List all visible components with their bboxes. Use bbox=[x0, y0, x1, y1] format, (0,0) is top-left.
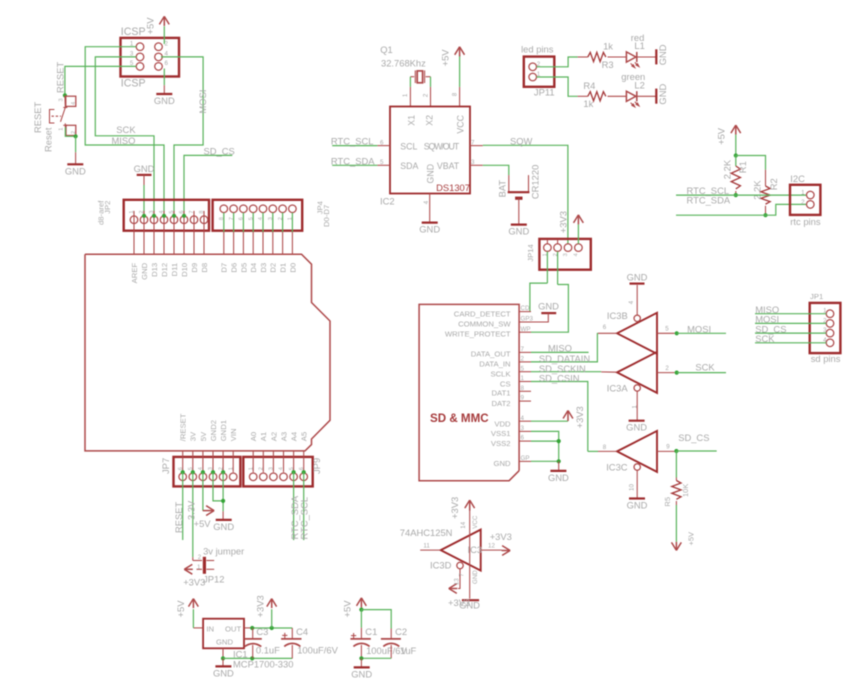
svg-text:RTC_SCL: RTC_SCL bbox=[331, 136, 374, 147]
svg-text:1k: 1k bbox=[583, 98, 593, 109]
svg-text:MOSI: MOSI bbox=[687, 324, 711, 335]
svg-text:GND: GND bbox=[134, 163, 155, 174]
svg-text:VDD: VDD bbox=[494, 419, 511, 428]
svg-text:ICSP: ICSP bbox=[121, 26, 146, 38]
svg-text:R2: R2 bbox=[768, 178, 779, 190]
svg-text:MISO: MISO bbox=[112, 135, 136, 146]
svg-text:MOSI: MOSI bbox=[197, 90, 208, 114]
svg-text:D2: D2 bbox=[269, 263, 278, 273]
svg-text:A5: A5 bbox=[300, 432, 309, 441]
svg-text:D0: D0 bbox=[288, 263, 297, 273]
svg-text:DAT1: DAT1 bbox=[492, 389, 511, 398]
svg-text:1: 1 bbox=[129, 210, 135, 213]
svg-text:SCK: SCK bbox=[116, 124, 136, 135]
svg-text:SD_CS: SD_CS bbox=[678, 432, 709, 443]
svg-text:IC3B: IC3B bbox=[607, 310, 628, 321]
svg-text:ICSP: ICSP bbox=[121, 77, 146, 89]
svg-text:COMMON_SW: COMMON_SW bbox=[458, 320, 511, 329]
svg-text:GND: GND bbox=[472, 570, 479, 584]
svg-text:3: 3 bbox=[58, 98, 64, 101]
svg-text:RESET: RESET bbox=[173, 501, 184, 533]
svg-text:IC3A: IC3A bbox=[607, 382, 629, 393]
svg-text:1: 1 bbox=[58, 128, 64, 131]
svg-text:+3V3: +3V3 bbox=[255, 595, 266, 617]
svg-text:GND: GND bbox=[627, 272, 648, 283]
svg-text:2: 2 bbox=[71, 131, 77, 134]
svg-text:.1uF: .1uF bbox=[398, 645, 417, 656]
svg-text:GND: GND bbox=[538, 301, 559, 312]
svg-text:2.2K: 2.2K bbox=[722, 159, 733, 179]
svg-text:WP: WP bbox=[521, 326, 531, 333]
svg-text:GND: GND bbox=[65, 165, 86, 176]
svg-text:CARD_DETECT: CARD_DETECT bbox=[454, 309, 511, 318]
svg-text:RESET: RESET bbox=[32, 101, 43, 133]
svg-text:IN: IN bbox=[206, 624, 214, 633]
svg-text:5: 5 bbox=[665, 326, 669, 333]
svg-text:BAT: BAT bbox=[496, 180, 507, 198]
svg-text:+3V3: +3V3 bbox=[448, 597, 470, 608]
svg-text:4: 4 bbox=[521, 415, 525, 422]
svg-text:9: 9 bbox=[666, 444, 670, 451]
svg-text:SCK: SCK bbox=[695, 362, 715, 373]
svg-text:5: 5 bbox=[188, 467, 194, 470]
svg-text:14: 14 bbox=[460, 521, 467, 528]
svg-text:D8: D8 bbox=[200, 263, 209, 273]
svg-text:5: 5 bbox=[169, 210, 175, 213]
svg-text:+5V: +5V bbox=[439, 49, 450, 67]
svg-text:GND: GND bbox=[548, 472, 569, 483]
svg-text:8: 8 bbox=[452, 92, 459, 96]
svg-text:DS1307: DS1307 bbox=[436, 182, 470, 193]
svg-text:1: 1 bbox=[631, 405, 638, 409]
svg-text:2.2K: 2.2K bbox=[752, 180, 763, 200]
svg-text:6: 6 bbox=[179, 210, 185, 213]
svg-text:JP14: JP14 bbox=[526, 243, 535, 261]
svg-text:DAT2: DAT2 bbox=[492, 399, 511, 408]
svg-text:SCLK: SCLK bbox=[491, 369, 512, 378]
svg-text:red: red bbox=[631, 32, 645, 43]
svg-text:1: 1 bbox=[288, 217, 294, 220]
svg-text:D9: D9 bbox=[190, 263, 199, 273]
svg-text:IC2: IC2 bbox=[380, 196, 395, 207]
svg-text:4: 4 bbox=[574, 253, 580, 256]
svg-text:GND: GND bbox=[626, 422, 647, 433]
svg-text:JP12: JP12 bbox=[203, 573, 224, 584]
svg-text:10K: 10K bbox=[681, 484, 690, 497]
svg-text:2: 2 bbox=[198, 554, 202, 561]
svg-text:X2: X2 bbox=[425, 115, 435, 126]
svg-text:4: 4 bbox=[258, 217, 264, 220]
svg-text:OUT: OUT bbox=[225, 624, 242, 633]
svg-text:+5V: +5V bbox=[175, 600, 186, 618]
svg-text:+3V3: +3V3 bbox=[574, 406, 585, 428]
svg-text:1: 1 bbox=[521, 375, 525, 382]
svg-text:R5: R5 bbox=[663, 497, 672, 507]
svg-text:100uF/6V: 100uF/6V bbox=[297, 644, 338, 655]
svg-text:D13: D13 bbox=[150, 263, 159, 277]
svg-text:D7: D7 bbox=[220, 263, 229, 273]
svg-text:7: 7 bbox=[189, 210, 195, 213]
svg-text:A3: A3 bbox=[279, 432, 288, 441]
svg-text:3V: 3V bbox=[189, 431, 198, 441]
svg-text:D10: D10 bbox=[180, 263, 189, 277]
svg-text:RTC_SDA: RTC_SDA bbox=[687, 195, 731, 206]
svg-text:5: 5 bbox=[248, 217, 254, 220]
svg-text:GND: GND bbox=[213, 521, 234, 532]
svg-text:2: 2 bbox=[665, 365, 669, 372]
svg-text:11: 11 bbox=[423, 543, 430, 550]
svg-text:GND: GND bbox=[154, 95, 175, 106]
svg-text:R3: R3 bbox=[602, 59, 614, 70]
svg-text:GND1: GND1 bbox=[219, 420, 228, 441]
svg-text:JP1: JP1 bbox=[810, 292, 823, 301]
svg-text:D12: D12 bbox=[160, 263, 169, 277]
svg-text:GND: GND bbox=[508, 226, 529, 237]
svg-text:D5: D5 bbox=[239, 263, 248, 273]
svg-text:+3V3: +3V3 bbox=[490, 531, 512, 542]
svg-text:Q1: Q1 bbox=[380, 44, 393, 55]
svg-text:6: 6 bbox=[165, 60, 169, 67]
svg-text:GP: GP bbox=[521, 455, 530, 462]
svg-text:6: 6 bbox=[239, 217, 245, 220]
svg-text:3: 3 bbox=[471, 159, 475, 166]
svg-text:GND: GND bbox=[657, 44, 668, 65]
svg-text:JP11: JP11 bbox=[534, 86, 555, 97]
svg-text:D3: D3 bbox=[259, 263, 268, 273]
svg-text:SQW: SQW bbox=[510, 135, 533, 146]
svg-text:C3: C3 bbox=[256, 626, 268, 637]
svg-text:I2C: I2C bbox=[790, 173, 805, 184]
svg-text:+3V3: +3V3 bbox=[183, 577, 205, 588]
svg-text:C1: C1 bbox=[365, 626, 377, 637]
svg-text:GND: GND bbox=[494, 459, 512, 468]
svg-text:SDA: SDA bbox=[400, 161, 418, 171]
svg-text:GND: GND bbox=[657, 84, 668, 105]
svg-text:SCL: SCL bbox=[400, 142, 417, 152]
svg-text:6: 6 bbox=[521, 435, 525, 442]
svg-text:3: 3 bbox=[149, 210, 155, 213]
svg-text:GND: GND bbox=[216, 638, 234, 647]
svg-text:IC3C: IC3C bbox=[606, 462, 628, 473]
svg-text:D11: D11 bbox=[170, 263, 179, 277]
svg-text:JP2: JP2 bbox=[103, 201, 112, 214]
svg-text:D1: D1 bbox=[279, 263, 288, 273]
svg-text:4: 4 bbox=[628, 300, 635, 304]
svg-text:1: 1 bbox=[801, 189, 805, 196]
svg-text:+3V3: +3V3 bbox=[558, 211, 569, 233]
svg-text:C2: C2 bbox=[395, 626, 407, 637]
svg-text:5: 5 bbox=[521, 365, 525, 372]
svg-text:VSS1: VSS1 bbox=[491, 429, 511, 438]
svg-text:6: 6 bbox=[380, 139, 384, 146]
svg-text:7: 7 bbox=[471, 139, 475, 146]
svg-text:RTC_SCL: RTC_SCL bbox=[299, 497, 310, 540]
svg-text:3v jumper: 3v jumper bbox=[203, 546, 244, 557]
svg-text:MCP1700-330: MCP1700-330 bbox=[233, 658, 293, 669]
svg-text:Reset: Reset bbox=[43, 127, 54, 152]
svg-text:9: 9 bbox=[521, 395, 525, 402]
svg-text:5: 5 bbox=[380, 159, 384, 166]
svg-text:13: 13 bbox=[453, 578, 460, 585]
svg-text:D0-D7: D0-D7 bbox=[322, 205, 331, 227]
svg-text:4: 4 bbox=[423, 200, 430, 204]
svg-text:DATA_IN: DATA_IN bbox=[479, 359, 510, 368]
svg-text:A4: A4 bbox=[290, 431, 299, 441]
svg-text:VCC: VCC bbox=[472, 515, 479, 529]
svg-text:SD_CSIN: SD_CSIN bbox=[539, 373, 580, 384]
svg-text:DATA_OUT: DATA_OUT bbox=[471, 349, 511, 358]
svg-text:2: 2 bbox=[259, 467, 265, 470]
svg-text:VCC: VCC bbox=[456, 114, 466, 133]
svg-text:+5V: +5V bbox=[144, 17, 155, 35]
svg-text:2: 2 bbox=[521, 356, 525, 363]
svg-text:8: 8 bbox=[199, 210, 205, 213]
svg-text:D4: D4 bbox=[249, 262, 258, 273]
svg-text:+5V: +5V bbox=[686, 532, 695, 546]
svg-text:WRITE_PROTECT: WRITE_PROTECT bbox=[445, 329, 511, 338]
svg-text:R1: R1 bbox=[737, 161, 748, 173]
svg-text:rtc pins: rtc pins bbox=[790, 216, 821, 227]
svg-text:3.3V: 3.3V bbox=[185, 500, 196, 520]
svg-text:12: 12 bbox=[488, 543, 495, 550]
svg-text:7: 7 bbox=[521, 346, 525, 353]
svg-text:3: 3 bbox=[269, 467, 275, 470]
svg-text:VSS2: VSS2 bbox=[491, 439, 511, 448]
svg-text:2: 2 bbox=[165, 41, 169, 48]
svg-text:+5V: +5V bbox=[194, 518, 212, 529]
svg-text:6: 6 bbox=[178, 467, 184, 470]
svg-text:GND: GND bbox=[351, 668, 372, 679]
svg-text:A0: A0 bbox=[249, 432, 258, 441]
svg-text:0.1uF: 0.1uF bbox=[256, 644, 280, 655]
svg-text:IC3D: IC3D bbox=[430, 560, 452, 571]
svg-text:GND: GND bbox=[419, 224, 440, 235]
svg-text:RESET: RESET bbox=[55, 61, 66, 93]
svg-text:JP9: JP9 bbox=[311, 458, 322, 474]
svg-text:2: 2 bbox=[139, 210, 145, 213]
svg-text:GND2: GND2 bbox=[209, 420, 218, 441]
svg-text:+5V: +5V bbox=[716, 127, 727, 145]
svg-text:+3V3: +3V3 bbox=[449, 497, 460, 519]
svg-text:R4: R4 bbox=[583, 80, 595, 91]
svg-text:CR1220: CR1220 bbox=[530, 165, 541, 199]
svg-text:JP7: JP7 bbox=[160, 458, 171, 474]
svg-text:1k: 1k bbox=[603, 41, 613, 52]
svg-text:green: green bbox=[621, 71, 645, 82]
svg-text:SQW/OUT: SQW/OUT bbox=[424, 142, 460, 152]
svg-text:GND: GND bbox=[140, 262, 149, 280]
svg-text:GND: GND bbox=[627, 500, 648, 511]
svg-text:2: 2 bbox=[278, 217, 284, 220]
svg-text:led pins: led pins bbox=[521, 44, 554, 55]
svg-text:C4: C4 bbox=[296, 626, 308, 637]
svg-text:sd pins: sd pins bbox=[811, 353, 841, 364]
svg-text:AREF: AREF bbox=[130, 263, 139, 284]
svg-text:3: 3 bbox=[208, 467, 214, 470]
svg-text:1: 1 bbox=[228, 467, 234, 470]
svg-text:3: 3 bbox=[268, 217, 274, 220]
svg-text:7: 7 bbox=[459, 573, 466, 577]
svg-text:4: 4 bbox=[71, 102, 77, 105]
svg-text:2: 2 bbox=[801, 199, 805, 206]
svg-text:SCK: SCK bbox=[755, 333, 775, 344]
svg-text:SD & MMC: SD & MMC bbox=[430, 412, 489, 425]
svg-text:CD: CD bbox=[521, 305, 530, 312]
svg-text:10: 10 bbox=[628, 484, 635, 491]
svg-text:2: 2 bbox=[218, 467, 224, 470]
svg-text:2: 2 bbox=[422, 93, 429, 97]
svg-text:CS: CS bbox=[500, 379, 511, 388]
svg-text:1: 1 bbox=[248, 467, 254, 470]
svg-text:RTC_SDA: RTC_SDA bbox=[331, 155, 375, 166]
svg-text:A1: A1 bbox=[259, 432, 268, 441]
svg-text:3: 3 bbox=[563, 253, 569, 256]
svg-text:X1: X1 bbox=[406, 115, 416, 126]
svg-text:74AHC125N: 74AHC125N bbox=[400, 527, 453, 538]
svg-text:GND: GND bbox=[426, 164, 436, 184]
svg-text:5V: 5V bbox=[199, 431, 208, 441]
svg-text:6: 6 bbox=[299, 467, 305, 470]
svg-text:D6: D6 bbox=[230, 263, 239, 273]
svg-text:A2: A2 bbox=[269, 432, 278, 441]
svg-text:5: 5 bbox=[289, 467, 295, 470]
svg-text:8: 8 bbox=[603, 444, 607, 451]
svg-text:32.768Khz: 32.768Khz bbox=[381, 57, 426, 68]
svg-text:3: 3 bbox=[521, 425, 525, 432]
svg-text:6: 6 bbox=[603, 324, 607, 331]
svg-text:MISO: MISO bbox=[548, 343, 572, 354]
svg-text:VIN: VIN bbox=[229, 428, 238, 441]
svg-text:/RESET: /RESET bbox=[179, 413, 188, 441]
svg-text:1: 1 bbox=[197, 564, 201, 571]
svg-text:1: 1 bbox=[402, 93, 409, 97]
svg-text:7: 7 bbox=[229, 217, 235, 220]
svg-text:4: 4 bbox=[198, 467, 204, 470]
svg-text:GND: GND bbox=[213, 667, 234, 678]
svg-text:8: 8 bbox=[219, 217, 225, 220]
svg-text:+5V: +5V bbox=[342, 600, 353, 618]
svg-text:8: 8 bbox=[521, 385, 525, 392]
svg-text:VBAT: VBAT bbox=[437, 161, 460, 171]
svg-text:4: 4 bbox=[279, 467, 285, 470]
svg-text:SD_CS: SD_CS bbox=[204, 146, 235, 157]
svg-text:4: 4 bbox=[159, 210, 165, 213]
